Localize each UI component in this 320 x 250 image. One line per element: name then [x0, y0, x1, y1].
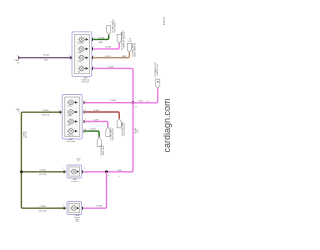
label wire CLS49 box4 — [96, 206, 103, 208]
lamp stop (box2 rowB) — [67, 109, 78, 117]
label wire CLS40 branch box3 — [39, 170, 47, 177]
lamp turn (box1 row3) — [78, 55, 89, 63]
svg-text:57: 57 — [135, 106, 137, 108]
svg-text:3: 3 — [85, 110, 86, 112]
svg-text:(GN): (GN) — [98, 42, 103, 44]
label wire CLS49 vertical — [135, 127, 139, 134]
svg-text:CLS9: CLS9 — [93, 120, 99, 122]
label pin 4 at C4BP left — [17, 55, 18, 57]
svg-text:124-5: 124-5 — [162, 17, 166, 25]
svg-text:Connector: Connector — [81, 81, 89, 84]
svg-text:Stop: Stop — [67, 114, 71, 117]
svg-text:(GY-OG): (GY-OG) — [39, 211, 47, 213]
label wire CLS40 branch box4 — [39, 206, 47, 213]
node junction box4 branch — [105, 170, 108, 173]
svg-text:2: 2 — [62, 204, 63, 206]
svg-text:Reverse: Reverse — [78, 42, 84, 45]
label connector C426 — [108, 170, 123, 178]
label wire CLS40 vertical — [23, 131, 27, 138]
svg-text:(GY-OG): (GY-OG) — [26, 131, 28, 138]
lamp tail (box1 row4) — [78, 65, 89, 73]
label splice S435 at olive corner — [16, 109, 20, 115]
svg-text:CLS13: CLS13 — [104, 56, 111, 58]
svg-text:FEED CIRCUIT: FEED CIRCUIT — [113, 127, 115, 140]
svg-text:2: 2 — [19, 113, 20, 115]
flag connector (green wire box2 rowD) — [97, 137, 101, 146]
flag connector (pink wire box2 rowC) — [106, 127, 110, 136]
svg-text:2: 2 — [93, 55, 94, 57]
wire CLS40 olive branch to box3 — [21, 171, 66, 173]
wire CLS13 (BN) tan to flag — [93, 53, 129, 58]
wire pink box4 up to junction — [83, 172, 106, 208]
connector C4BT rear lamp assembly (box2) — [62, 95, 82, 140]
label pins box1 right — [69, 37, 94, 68]
label flag2 destination vertical — [121, 30, 126, 50]
lamp license (box4) — [70, 206, 79, 211]
label wire CLS23 (VT) — [43, 55, 50, 62]
svg-text:C4035 HARNESS: C4035 HARNESS — [134, 42, 137, 57]
lamp tail (box2 rowC) — [67, 118, 78, 126]
svg-text:(PK): (PK) — [137, 129, 139, 133]
svg-text:HARNESS C4035: HARNESS C4035 — [123, 34, 126, 48]
label connector C4BT below box2 — [67, 139, 75, 143]
svg-text:CLS33: CLS33 — [93, 110, 100, 112]
watermark cardiagn.com — [162, 98, 172, 152]
label wire CLS9 rowC — [93, 120, 99, 122]
svg-text:1: 1 — [84, 168, 85, 170]
connector C4BP trailer tow relay box (top) — [72, 32, 92, 77]
svg-text:CLS27: CLS27 — [90, 129, 97, 131]
svg-text:1: 1 — [85, 119, 86, 121]
svg-text:License: License — [72, 181, 78, 183]
label pins box2 — [58, 100, 86, 131]
label wire CLS46 (PK) — [105, 47, 112, 49]
label connector C4BP below box1 — [81, 78, 90, 84]
label connector below box3 — [72, 179, 78, 183]
label flag4 destination vertical — [121, 121, 126, 136]
svg-text:12: 12 — [78, 161, 80, 163]
svg-text:LAMP FEED: LAMP FEED — [102, 145, 105, 156]
svg-text:Rear Lamp: Rear Lamp — [67, 140, 75, 143]
flag connector (red wire box2 rowB) — [117, 119, 121, 128]
svg-text:CLS40: CLS40 — [42, 110, 49, 112]
label flag1 destination vertical — [112, 22, 117, 33]
label pins box4 — [62, 204, 84, 206]
pin ticks box3 — [64, 170, 83, 173]
lamp stop (box1 row2) — [78, 46, 89, 54]
label page reference 124-5 — [162, 17, 166, 25]
label flag3 destination vertical — [132, 42, 137, 57]
svg-text:9: 9 — [119, 176, 120, 178]
flag connector (tan wire row3) — [127, 43, 131, 52]
svg-text:FEED CIRCUIT: FEED CIRCUIT — [124, 122, 126, 135]
svg-text:1: 1 — [84, 204, 85, 206]
svg-text:Turn: Turn — [67, 105, 70, 108]
wire CLS36 (GN) green to flag — [93, 35, 109, 40]
lamp turn (box2 rowA) — [67, 99, 78, 107]
flag connector (pink wire row2) — [117, 34, 121, 43]
svg-text:CLS49: CLS49 — [96, 206, 103, 208]
label flag3 above — [128, 39, 132, 43]
svg-text:Reverse: Reverse — [67, 133, 73, 136]
svg-text:5: 5 — [93, 47, 94, 49]
svg-text:3: 3 — [93, 37, 94, 39]
label wire CLS33 (RD) rowB — [93, 110, 100, 112]
flag connector to trailer tow connector — [156, 79, 160, 88]
svg-text:6: 6 — [85, 129, 86, 131]
flag connector to rear lamps (green wire) — [107, 26, 111, 35]
pin ticks box1 right — [70, 38, 93, 70]
label trailer flag vertical — [154, 62, 159, 77]
wire CLS40 olive trunk from box2 left down to box4 — [21, 112, 66, 208]
svg-text:12: 12 — [146, 101, 148, 103]
label flag6 destination vertical — [110, 127, 115, 141]
label flag1 above — [111, 20, 115, 24]
wire CLS49 (PK) pink from lamp row4 down to splice — [93, 68, 133, 102]
svg-text:Stop: Stop — [78, 51, 82, 54]
svg-text:CLS49: CLS49 — [107, 67, 114, 69]
pin ticks box2 — [60, 101, 85, 133]
wire green box2 rowD to flag — [85, 131, 99, 137]
svg-text:CLS36: CLS36 — [98, 37, 105, 39]
wire pink box2 rowC to flag — [85, 122, 108, 128]
lamp reverse (box1 row1) — [78, 36, 89, 44]
svg-text:4: 4 — [69, 55, 70, 57]
label flag7 destination vertical — [101, 144, 105, 156]
svg-text:CLS46: CLS46 — [105, 47, 112, 49]
svg-text:2: 2 — [18, 64, 19, 66]
wire CLS46 (PK) pink to flag — [93, 43, 119, 49]
svg-text:(BN): (BN) — [122, 56, 126, 58]
node S421 splice junction — [132, 101, 135, 104]
connector C4BM license lamp (box4) — [67, 202, 82, 215]
label wire CLS49 (PK) row4 — [107, 67, 114, 69]
label wire CLS40 top run — [41, 110, 49, 117]
svg-text:Turn: Turn — [78, 60, 81, 63]
svg-text:cardiagn.com: cardiagn.com — [162, 98, 172, 152]
label pins box3 — [62, 159, 84, 170]
svg-text:CONNECTOR: CONNECTOR — [157, 64, 159, 76]
label wire CLS36 (GN) — [98, 37, 105, 44]
wire CLS49 pink from box2 rowA to splice — [85, 102, 133, 104]
svg-text:CLS40: CLS40 — [40, 206, 47, 208]
label splice S421 — [135, 100, 149, 108]
lamp reverse (box2 rowD) — [67, 128, 78, 136]
svg-text:(VT): (VT) — [44, 59, 48, 61]
wire CLS33 (RD) red from box2 rowB to flag — [85, 112, 119, 119]
svg-text:TOW CONN: TOW CONN — [115, 22, 117, 33]
label wire CLS13 (BN) — [104, 56, 126, 58]
svg-text:1: 1 — [93, 66, 94, 68]
label wire CLS27 rowD — [90, 129, 97, 131]
svg-text:4: 4 — [17, 55, 18, 57]
svg-text:CLS40: CLS40 — [40, 170, 47, 172]
connector C4BL license lamp (box3) — [67, 165, 82, 178]
svg-text:(GY-OG): (GY-OG) — [41, 114, 49, 116]
svg-text:2: 2 — [58, 110, 59, 112]
svg-text:CLS23: CLS23 — [43, 55, 50, 57]
wire CLS23 (VT) violet feed to C4BP — [19, 57, 72, 59]
svg-text:5: 5 — [85, 100, 86, 102]
svg-text:9: 9 — [108, 175, 109, 177]
pin tick C4BP pin 4 — [17, 56, 20, 59]
svg-text:2: 2 — [62, 168, 63, 170]
node olive tee junction — [20, 170, 23, 173]
wire pink splice down to C426 row — [83, 103, 133, 172]
wire pink splice to trailer tow flag — [133, 88, 158, 102]
svg-text:C412: C412 — [128, 41, 132, 43]
svg-text:CLS49: CLS49 — [110, 100, 117, 102]
label wire CLS49 rowA — [110, 100, 117, 102]
label connector C4BP left end — [14, 60, 19, 66]
label connector below box4 — [74, 215, 80, 223]
svg-text:(GY-OG): (GY-OG) — [39, 174, 47, 176]
lamp license (box3) — [70, 169, 79, 174]
pin ticks box4 — [64, 207, 83, 210]
